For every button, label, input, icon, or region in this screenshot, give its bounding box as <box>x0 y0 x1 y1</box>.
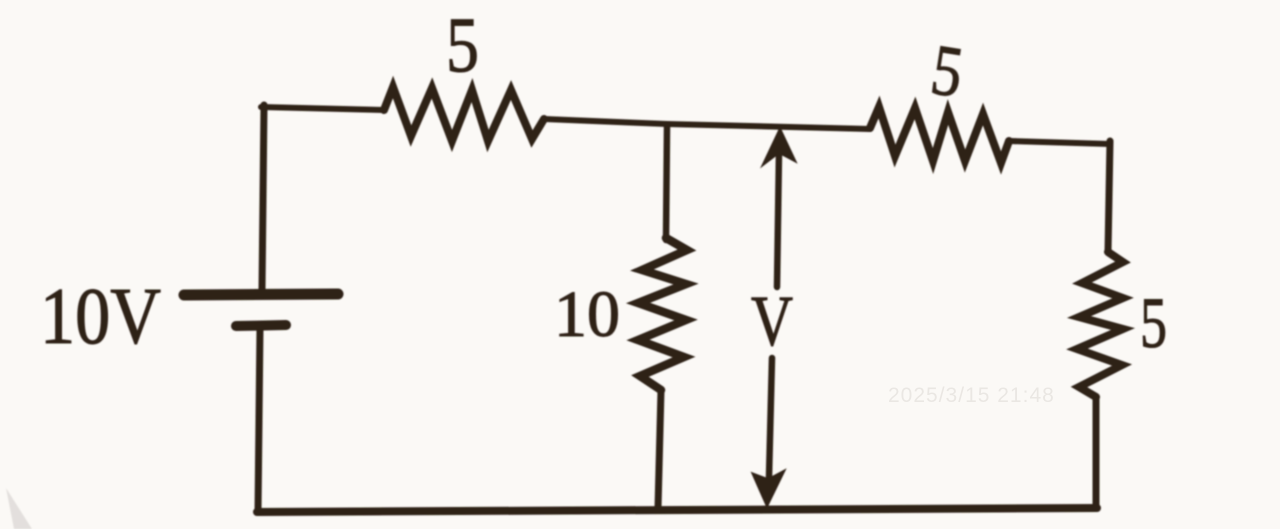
resistor R4 5 (right vertical zigzag) <box>1077 252 1123 397</box>
svg-text:5: 5 <box>1140 283 1167 363</box>
svg-text:5: 5 <box>446 1 479 88</box>
scan shadow bottom-left corner <box>6 488 32 529</box>
wire: top horizontal from top-left corner to resistor R1 <box>261 107 384 110</box>
svg-text:10V: 10V <box>40 273 161 361</box>
wire: node A down to resistor R2 <box>666 127 667 240</box>
wire: R1 to node A (junction with middle branch) <box>544 119 667 124</box>
battery B1 positive plate (long) <box>184 294 338 295</box>
wire: R3 to top-right corner <box>1009 141 1110 144</box>
voltmeter arrowhead down <box>752 470 785 507</box>
wire: left vertical from top-left corner down to battery positive plate <box>262 105 264 291</box>
wire: right vertical upper segment <box>1108 141 1110 252</box>
resistor R2 10 (middle vertical zigzag) <box>638 238 687 390</box>
wire: R2 down to bottom wire <box>658 390 661 508</box>
wire: right vertical lower segment to bottom-right corner <box>1093 397 1100 508</box>
wire: battery negative plate down to bottom-left corner <box>258 327 260 512</box>
svg-text:V: V <box>751 281 793 361</box>
wire: bottom horizontal <box>257 508 1097 512</box>
svg-text:10: 10 <box>554 278 620 351</box>
voltmeter arrow lower shaft <box>769 358 772 477</box>
wire: node A to resistor R3 (passes over voltmeter arrow tip) <box>667 124 870 129</box>
resistor R3 5 (top-right horizontal zigzag) <box>870 107 1009 163</box>
voltmeter arrow upper shaft <box>777 152 779 287</box>
battery B1 negative plate (short) <box>236 325 286 326</box>
voltmeter arrowhead up <box>762 128 796 166</box>
svg-text:2025/3/15 21:48: 2025/3/15 21:48 <box>888 384 1055 407</box>
resistor R1 5 (top-left horizontal zigzag) <box>384 87 544 141</box>
